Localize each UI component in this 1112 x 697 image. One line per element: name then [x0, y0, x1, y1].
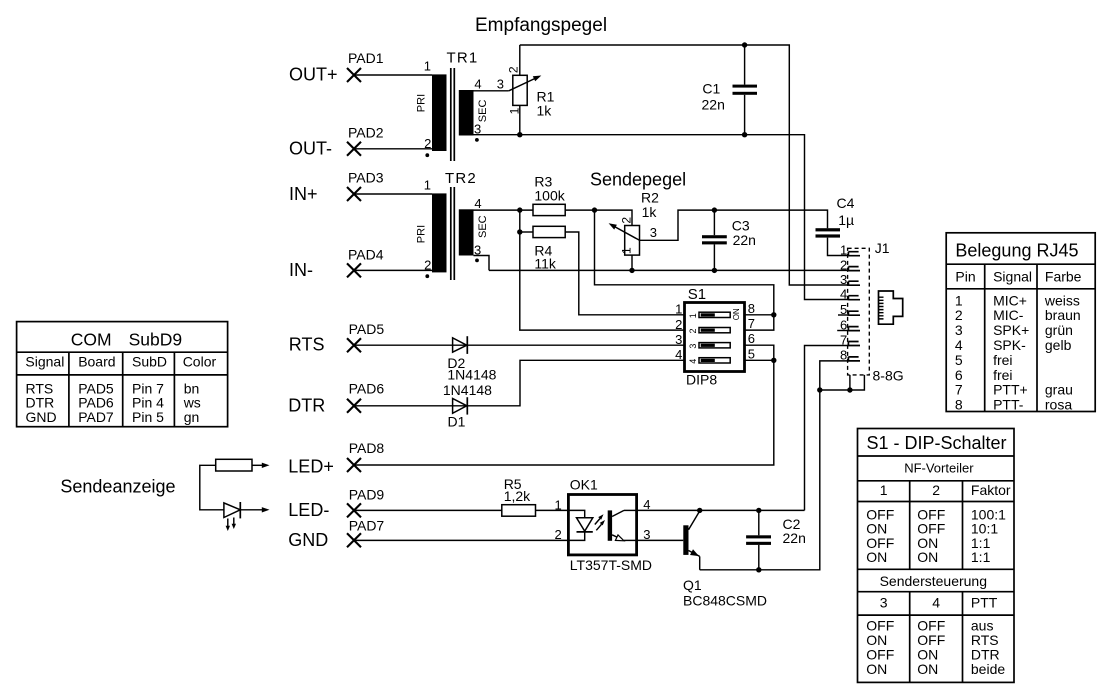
svg-text:5: 5	[748, 346, 755, 361]
resistor R5	[502, 505, 536, 517]
svg-text:1: 1	[424, 178, 431, 193]
svg-text:SPK-: SPK-	[993, 337, 1026, 353]
wire OK1 pin4 to Q1 collector net	[637, 509, 805, 511]
svg-text:Sendeanzeige: Sendeanzeige	[60, 477, 175, 497]
pad PAD5 cross	[347, 338, 361, 352]
wire vertical R3 left to R4 left to S1 pin2	[520, 210, 684, 330]
svg-text:C4: C4	[837, 195, 855, 211]
svg-text:22n: 22n	[783, 530, 806, 546]
wire S1 pin7 up to pin8 junction	[745, 315, 774, 330]
svg-text:1:1: 1:1	[971, 549, 991, 565]
J1 pin 6 stub wire	[837, 330, 848, 332]
resistor R3	[533, 204, 565, 215]
svg-text:1µ: 1µ	[838, 212, 854, 228]
svg-text:Signal: Signal	[993, 269, 1032, 285]
svg-text:grau: grau	[1045, 382, 1073, 398]
svg-text:2: 2	[424, 258, 431, 273]
pad PAD7 cross	[347, 533, 361, 547]
svg-text:1: 1	[840, 243, 847, 258]
svg-text:3: 3	[955, 322, 963, 338]
svg-text:beide: beide	[971, 661, 1005, 677]
svg-text:rosa: rosa	[1045, 397, 1072, 413]
transformer TR2	[415, 170, 489, 280]
pad PAD1 cross	[347, 68, 361, 82]
junction R4 left	[517, 229, 522, 234]
svg-text:LED-: LED-	[288, 500, 329, 520]
svg-text:ON: ON	[917, 549, 938, 565]
pad PAD6 cross	[347, 399, 361, 413]
TR1 secondary phase dot	[475, 138, 479, 142]
svg-text:SubD: SubD	[132, 354, 167, 370]
svg-text:5: 5	[955, 352, 963, 368]
wire OUT+ PAD1 to TR1 pin1	[354, 74, 432, 76]
svg-text:C1: C1	[702, 81, 720, 97]
svg-text:PRI: PRI	[415, 225, 427, 243]
svg-text:TR1: TR1	[447, 50, 479, 67]
DIP switch S1	[685, 303, 745, 372]
J1 pin 8 contact	[848, 357, 860, 362]
svg-text:1,2k: 1,2k	[504, 488, 531, 504]
svg-text:2: 2	[424, 136, 431, 151]
svg-text:1N4148: 1N4148	[443, 382, 492, 398]
junction at C1 top	[742, 42, 747, 47]
resistor R4	[520, 226, 684, 314]
J1 pin 1 contact	[848, 252, 860, 257]
wire shield net down to Q1 emitter net	[700, 390, 820, 570]
svg-text:DTR: DTR	[288, 396, 325, 416]
wire R1 pin1 down	[519, 105, 521, 134]
svg-text:S1: S1	[688, 286, 706, 303]
svg-text:1N4148: 1N4148	[447, 367, 496, 383]
capacitor C1	[733, 45, 758, 135]
svg-text:1: 1	[688, 313, 698, 318]
wire R3 junction down to S1 pins 7 8	[595, 210, 774, 315]
svg-text:Faktor: Faktor	[971, 482, 1011, 498]
Sendeanzeige annotation resistor	[200, 459, 270, 510]
svg-text:RTS: RTS	[289, 335, 325, 355]
J1 pin 2 contact	[848, 267, 860, 272]
svg-text:IN-: IN-	[289, 260, 313, 280]
J1 pin 3 contact	[848, 281, 860, 286]
svg-text:100k: 100k	[534, 188, 565, 204]
svg-text:frei: frei	[993, 367, 1012, 383]
wire LED- PAD9 to R5	[354, 509, 502, 511]
svg-text:GND: GND	[288, 530, 328, 550]
svg-text:3: 3	[880, 595, 888, 611]
capacitor C4	[816, 228, 850, 255]
wire S1 pin6 down to pin5	[745, 345, 774, 360]
wire TR2 sec pin4 to R3	[474, 209, 534, 211]
junction R3 left	[517, 207, 522, 212]
svg-text:gelb: gelb	[1045, 337, 1072, 353]
potentiometer R2	[609, 223, 640, 255]
svg-text:4: 4	[675, 347, 682, 362]
svg-text:PTT: PTT	[971, 595, 998, 611]
svg-text:22n: 22n	[733, 232, 756, 248]
svg-text:MIC-: MIC-	[993, 307, 1024, 323]
svg-text:22n: 22n	[702, 96, 725, 112]
junction C2 top	[756, 508, 761, 513]
svg-text:SEC: SEC	[477, 215, 489, 238]
svg-text:1: 1	[675, 302, 682, 317]
junction Q1 collector	[697, 508, 702, 513]
svg-text:SEC: SEC	[477, 100, 489, 123]
capacitor C2	[746, 510, 771, 569]
svg-text:PAD4: PAD4	[348, 247, 384, 263]
junction C3 top	[712, 207, 717, 212]
svg-text:1: 1	[424, 59, 431, 74]
svg-text:PAD7: PAD7	[349, 517, 385, 533]
J1 pin 6 contact	[848, 327, 860, 332]
svg-text:8: 8	[748, 301, 755, 316]
svg-text:Sendersteuerung: Sendersteuerung	[880, 573, 987, 589]
svg-text:ON: ON	[866, 661, 887, 677]
table Belegung RJ45	[946, 233, 1095, 412]
svg-text:ON: ON	[732, 308, 741, 320]
svg-text:PAD7: PAD7	[78, 409, 114, 425]
svg-text:7: 7	[955, 382, 963, 398]
svg-text:SubD9: SubD9	[129, 329, 183, 349]
OK1 phototransistor	[608, 510, 637, 540]
svg-text:8-8G: 8-8G	[873, 368, 904, 384]
svg-text:2: 2	[955, 307, 963, 323]
junction S1 pin8	[771, 312, 776, 317]
svg-text:2: 2	[932, 482, 940, 498]
svg-text:D1: D1	[448, 414, 466, 430]
S1 switch 3 slot	[699, 343, 730, 348]
svg-text:braun: braun	[1045, 307, 1081, 323]
wire S1 pin5 net down to LED+ pad	[354, 360, 774, 465]
svg-text:ON: ON	[866, 549, 887, 565]
svg-text:3: 3	[650, 225, 657, 240]
wire IN+ PAD3 to TR2 pin1	[354, 193, 432, 195]
J1 pin 5 stub wire	[838, 314, 848, 316]
wire top net R1 to C1 top to J1 pin3 riser	[520, 45, 849, 285]
capacitor C3	[702, 210, 727, 270]
wire TR1 sec pin4 to R1 wiper	[474, 90, 509, 92]
wire S1 pin5 to junction	[745, 359, 774, 361]
table COM SubD9	[17, 322, 228, 427]
svg-text:OUT+: OUT+	[289, 65, 338, 85]
svg-text:PTT-: PTT-	[993, 397, 1024, 413]
diode D1	[354, 360, 684, 414]
svg-text:J1: J1	[875, 240, 890, 256]
svg-text:PAD5: PAD5	[349, 321, 385, 337]
J1 pin 5 contact	[848, 311, 860, 316]
S1 switch 1 slot	[699, 312, 730, 317]
svg-text:4: 4	[474, 196, 481, 211]
svg-text:PAD2: PAD2	[348, 124, 384, 140]
wire J1 pin8 down	[820, 361, 849, 390]
svg-text:TR2: TR2	[445, 170, 477, 187]
svg-text:4: 4	[955, 337, 963, 353]
svg-text:6: 6	[748, 331, 755, 346]
RJ45 jack symbol	[879, 291, 903, 324]
svg-text:grün: grün	[1045, 322, 1073, 338]
svg-text:SPK+: SPK+	[993, 322, 1029, 338]
wire R2 pin3 to C3 top to C4 top	[640, 210, 828, 240]
svg-text:1k: 1k	[642, 204, 658, 220]
svg-text:ON: ON	[917, 661, 938, 677]
svg-text:DIP8: DIP8	[686, 372, 717, 388]
svg-text:IN+: IN+	[289, 184, 318, 204]
pad PAD4 cross	[347, 263, 361, 277]
junction C2 bottom	[756, 567, 761, 572]
junction shield	[847, 387, 852, 392]
S1 switch 2 slot	[699, 328, 730, 333]
svg-text:gn: gn	[184, 409, 200, 425]
diode D2	[354, 336, 684, 354]
transistor Q1	[683, 511, 699, 570]
wire GND PAD7 to OK1 pin2	[354, 539, 568, 541]
svg-text:LED+: LED+	[288, 456, 334, 476]
wire R2 pin1 down	[631, 255, 633, 270]
wire S1 pin8 to junction	[745, 314, 774, 316]
pad PAD9 cross	[347, 503, 361, 517]
svg-text:8: 8	[955, 397, 963, 413]
svg-text:2: 2	[840, 257, 847, 272]
svg-text:4: 4	[688, 359, 698, 364]
potentiometer R1	[509, 75, 542, 105]
svg-text:MIC+: MIC+	[993, 292, 1027, 308]
svg-text:PAD9: PAD9	[349, 487, 385, 503]
svg-text:4: 4	[932, 595, 940, 611]
svg-text:3: 3	[840, 272, 847, 287]
svg-text:PAD6: PAD6	[349, 381, 385, 397]
J1 pin 7 contact	[848, 342, 860, 347]
svg-text:3: 3	[497, 77, 504, 92]
svg-text:Signal: Signal	[25, 354, 64, 370]
svg-text:6: 6	[955, 367, 963, 383]
Sendeanzeige annotation LED	[224, 502, 270, 531]
junction R3 right	[592, 207, 597, 212]
junction C1 bottom	[742, 132, 747, 137]
svg-text:PAD3: PAD3	[348, 170, 384, 186]
svg-text:NF-Vorteiler: NF-Vorteiler	[904, 460, 974, 475]
svg-text:Empfangspegel: Empfangspegel	[475, 15, 607, 36]
wire OUT- PAD2 to TR1 pin2	[354, 148, 432, 150]
svg-text:Board: Board	[78, 354, 115, 370]
svg-text:2: 2	[506, 66, 520, 73]
junction R2 pin1	[629, 268, 634, 273]
pad PAD8 cross	[347, 458, 361, 472]
svg-text:frei: frei	[993, 352, 1012, 368]
wire J1 pin7 to Q1 collector net	[805, 346, 850, 511]
wire R5 to OK1 pin1	[536, 509, 569, 511]
svg-text:Farbe: Farbe	[1045, 269, 1082, 285]
svg-text:2: 2	[554, 527, 561, 542]
svg-text:Q1: Q1	[683, 577, 702, 593]
junction R1 pin1 at sec net	[517, 132, 522, 137]
svg-text:4: 4	[840, 287, 847, 302]
junction S1 pin5	[771, 358, 776, 363]
wire IN- PAD4 to TR2 pin2	[354, 269, 432, 271]
J1 shield stub 8G right	[820, 375, 865, 390]
wire OK1 pin3 to Q1 base	[637, 539, 684, 541]
svg-text:2: 2	[688, 328, 698, 333]
svg-text:2: 2	[619, 217, 633, 224]
OK1 internal LED	[568, 510, 592, 540]
optocoupler OK1	[568, 495, 636, 555]
svg-text:3: 3	[675, 332, 682, 347]
svg-text:1k: 1k	[537, 103, 553, 119]
svg-text:COM: COM	[71, 329, 112, 349]
svg-text:PTT+: PTT+	[993, 382, 1028, 398]
svg-text:Color: Color	[183, 354, 217, 370]
svg-text:4: 4	[474, 77, 481, 92]
wire sec pin3 net to J1 pin2	[489, 269, 849, 271]
svg-text:weiss: weiss	[1044, 292, 1080, 308]
svg-text:1: 1	[880, 482, 888, 498]
pad PAD2 cross	[347, 142, 361, 156]
svg-text:1: 1	[955, 292, 963, 308]
svg-text:11k: 11k	[534, 255, 557, 271]
TR2 secondary phase dot	[475, 259, 479, 263]
connector J1 dashed outline	[848, 248, 870, 375]
transformer TR1	[415, 50, 489, 162]
S1 switch 4 slot	[699, 358, 730, 363]
wire TR1 sec pin3 net to C1 bottom to J1 pin4 riser	[474, 135, 850, 300]
svg-text:S1 - DIP-Schalter: S1 - DIP-Schalter	[867, 433, 1007, 453]
TR1 primary phase dot	[425, 153, 429, 157]
svg-text:Belegung RJ45: Belegung RJ45	[955, 240, 1078, 260]
svg-text:3: 3	[688, 344, 698, 349]
table S1 DIP-Schalter	[858, 429, 1015, 683]
TR2 primary phase dot	[425, 274, 429, 278]
svg-text:OUT-: OUT-	[289, 139, 332, 159]
svg-text:Pin 5: Pin 5	[132, 409, 164, 425]
svg-text:PRI: PRI	[415, 94, 427, 112]
svg-text:Pin: Pin	[955, 269, 975, 285]
svg-text:GND: GND	[26, 409, 57, 425]
svg-text:Sendepegel: Sendepegel	[590, 170, 686, 190]
junction pin8 riser	[817, 387, 822, 392]
svg-text:7: 7	[748, 316, 755, 331]
wire R1 pin2 up	[519, 45, 521, 75]
OK1 light arrows	[595, 514, 605, 530]
svg-text:1: 1	[554, 498, 561, 513]
svg-text:1: 1	[619, 247, 633, 254]
wire R3 right to R2 pin2	[565, 210, 632, 225]
junction C3 bottom	[712, 268, 717, 273]
svg-text:PAD1: PAD1	[348, 50, 384, 66]
svg-text:OK1: OK1	[570, 477, 598, 493]
svg-text:PAD8: PAD8	[349, 440, 385, 456]
J1 shield stub 8G left	[849, 375, 851, 390]
pad PAD3 cross	[347, 187, 361, 201]
svg-text:2: 2	[675, 317, 682, 332]
wire TR2 sec pin3 step	[474, 256, 490, 271]
svg-text:BC848CSMD: BC848CSMD	[683, 593, 767, 609]
J1 pin 4 contact	[848, 296, 860, 301]
svg-text:LT357T-SMD: LT357T-SMD	[570, 557, 652, 573]
